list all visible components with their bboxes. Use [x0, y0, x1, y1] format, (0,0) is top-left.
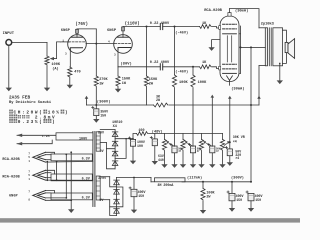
svg-text:.: .: [22, 120, 25, 125]
node row1 bias return: [174, 26, 176, 28]
wire pot4 top: [222, 134, 224, 140]
ground C7: [131, 210, 137, 214]
svg-text:RCA-020B: RCA-020B: [204, 9, 222, 13]
bias cap CB: [188, 144, 195, 153]
svg-text:270K: 270K: [99, 78, 108, 82]
svg-text:80V: 80V: [98, 131, 104, 135]
lead 0V bias: [100, 142, 106, 144]
label (300V) B+: [231, 176, 244, 181]
wire bridge1 out: [133, 134, 137, 139]
label 150K r7: [149, 78, 158, 82]
wire secondary ground: [279, 63, 281, 80]
speaker SP: [285, 39, 295, 59]
credit line: [9, 100, 52, 105]
svg-text:By Deiichiro Suzuki: By Deiichiro Suzuki: [9, 100, 52, 105]
label RCA-020B top: [204, 9, 222, 13]
pot VR5 wiper: [224, 141, 230, 145]
node bridge1 bus: [125, 138, 127, 140]
label CC tiny: [216, 148, 221, 154]
bias cap CA: [170, 144, 177, 153]
wire bridge2 to choke: [150, 178, 152, 182]
V2 plate side bus: [239, 26, 241, 73]
svg-text:(300V): (300V): [231, 176, 244, 181]
ground VR5: [219, 164, 225, 168]
plate load R7 150K 2W: [144, 76, 148, 86]
filter resistor R9 100: [137, 132, 148, 136]
svg-text:100K: 100K: [198, 81, 207, 85]
label 6N6P heater: [9, 195, 18, 199]
wire plate to OPT: [230, 9, 260, 28]
V1a grid lead: [60, 41, 69, 43]
triode V1b envelope: [114, 35, 133, 54]
wire bias return B: [192, 67, 194, 75]
label 470: [74, 71, 80, 75]
svg-text:100K: 100K: [179, 81, 188, 85]
pin 3 label: [65, 53, 67, 56]
label 150 c7: [138, 194, 144, 198]
heater bus v3: [65, 154, 67, 199]
bridge2 jog2: [110, 200, 117, 207]
label 400V c7: [138, 190, 146, 194]
pot VR1 wiper arrow: [50, 57, 56, 60]
wire volume top: [46, 42, 48, 56]
node bleeder: [202, 181, 204, 183]
wire C8 ground: [231, 201, 233, 208]
svg-text:6N6P: 6N6P: [9, 195, 18, 199]
node filter cap: [95, 104, 97, 106]
wire pot1 top: [164, 134, 166, 140]
spec line 1: [9, 110, 67, 116]
wire B+ riser: [250, 47, 252, 182]
label 6N6P V1b: [107, 29, 117, 33]
bridge2 D3: [114, 199, 120, 204]
label 100 r9: [138, 129, 144, 133]
pin 1 label: [62, 39, 64, 42]
label 0V HV: [99, 198, 103, 202]
main cap C8 400V 150: [227, 191, 235, 201]
label 150 c8: [236, 198, 242, 202]
svg-text:6N6P: 6N6P: [61, 29, 71, 33]
PT bias winding 80V: [96, 132, 100, 151]
wire fil B t2: [46, 172, 52, 174]
bridge2 right bus: [117, 187, 123, 207]
wire RA to bias rail: [174, 88, 176, 146]
V2 filament vee: [227, 76, 233, 80]
heater bus v1: [46, 162, 48, 181]
bridge1 left bus: [107, 143, 116, 149]
bridge1 column: [114, 130, 116, 169]
label (30mA) plate: [235, 9, 248, 14]
svg-text:0: 0: [31, 111, 34, 116]
node fil B taps: [46, 179, 57, 181]
svg-text:30K VR: 30K VR: [233, 135, 245, 139]
PT heater box 1: [51, 154, 92, 162]
wire heater t2: [46, 192, 52, 194]
label 150 c3: [100, 113, 106, 117]
svg-text:%: %: [35, 120, 38, 125]
wire CC ground: [211, 153, 213, 164]
wire fil A t2: [46, 154, 52, 156]
label 2W r10: [206, 195, 211, 199]
label (30mA) cathode: [231, 87, 244, 92]
label 0V bias: [100, 149, 104, 153]
V2 inner support right: [231, 36, 233, 62]
svg-text:(-46V): (-46V): [175, 30, 188, 35]
svg-text:INPUT: INPUT: [3, 32, 15, 36]
label 2W r8: [156, 99, 161, 103]
svg-text:2A3S FEB: 2A3S FEB: [9, 95, 30, 100]
heater bus v2: [56, 161, 58, 180]
V2 inner support left: [226, 36, 228, 62]
wire driver rail left: [87, 104, 154, 106]
svg-text:×4: ×4: [233, 140, 237, 144]
label 400V c8: [236, 194, 244, 198]
wire cathode to R4: [117, 67, 119, 76]
wire heater t3: [46, 197, 67, 199]
svg-text:6N6P: 6N6P: [107, 29, 117, 33]
svg-text:0V: 0V: [100, 149, 104, 153]
svg-text:(30mA): (30mA): [231, 87, 244, 92]
node main cap 2: [250, 181, 252, 183]
ground R10: [200, 210, 206, 214]
label 2W r7: [149, 83, 154, 87]
ground volume pot: [44, 88, 50, 92]
node main cap 1: [231, 181, 233, 183]
pins fil B: [28, 170, 30, 181]
heater bus v4 ground line: [70, 151, 72, 209]
label CA tiny: [178, 148, 183, 154]
filament arrows B: [33, 170, 46, 180]
V1a cathode bar: [70, 48, 82, 50]
svg-text:2p10kΩ: 2p10kΩ: [261, 21, 275, 26]
label 350V c3: [100, 110, 108, 114]
label 6N6P V1a: [61, 29, 71, 33]
svg-text:150: 150: [138, 194, 144, 198]
ground R4: [115, 89, 121, 93]
node row2 bias return: [192, 66, 194, 68]
svg-text:(300V): (300V): [97, 100, 111, 105]
AC arrow 1: [17, 134, 23, 137]
svg-text:6.3V: 6.3V: [82, 178, 91, 182]
ground CC: [209, 164, 215, 168]
V2 mid stub to ground: [212, 40, 220, 48]
wire fil B t4: [46, 179, 93, 181]
svg-text:0: 0: [18, 120, 21, 125]
wire R6 to 2A3 grid2: [212, 67, 220, 69]
svg-text:(80V): (80V): [120, 62, 131, 67]
svg-text:150: 150: [255, 198, 261, 202]
plate load R3 270K 1W: [94, 76, 98, 86]
label 1W: [99, 83, 104, 87]
bias cap CC: [208, 144, 215, 153]
bias pot VR2: [162, 139, 166, 150]
V2 cathode lead: [229, 80, 231, 85]
svg-text:6.3V: 6.3V: [82, 158, 91, 162]
wire pot2 top: [182, 134, 184, 140]
svg-text:6.3V: 6.3V: [82, 197, 91, 201]
svg-text:(-46V): (-46V): [175, 69, 188, 74]
wire R3 to rail: [95, 87, 97, 105]
wire C2 to R6: [163, 66, 200, 68]
bridge1 D1: [112, 132, 118, 137]
svg-text:RCA-020B: RCA-020B: [2, 176, 20, 180]
bias pot VR4: [199, 139, 203, 150]
V2 upper grid hatch row1: [223, 23, 237, 25]
cathode resistor R2 470: [68, 67, 72, 77]
OPT T1 primary winding: [265, 28, 267, 66]
stub rail left: [86, 99, 88, 105]
PT heater box 3: [51, 193, 92, 201]
bridge1 right bus: [115, 139, 126, 159]
ground C3: [93, 119, 99, 123]
label (117mA): [187, 176, 202, 181]
bias filter cap C5 63V: [150, 134, 157, 146]
ground C5: [152, 161, 158, 165]
filament arrows A: [33, 152, 46, 162]
label 30K VR: [233, 135, 245, 139]
B+ rail: [182, 181, 251, 183]
ground heater bus: [68, 209, 74, 213]
svg-text:0V: 0V: [99, 198, 103, 202]
label 100K b: [198, 81, 207, 85]
bridge1 D3: [112, 151, 118, 156]
wire heater t4: [46, 199, 72, 201]
svg-text:%: %: [56, 111, 59, 116]
grid stopper R5 1K: [200, 25, 212, 29]
label 150K r4: [122, 78, 131, 82]
label (110V): [125, 21, 140, 26]
label 0.22 400V row2: [150, 61, 170, 65]
bias pot VR3: [181, 139, 185, 150]
ground R2: [67, 85, 73, 89]
V2 plate cap: [228, 13, 231, 17]
wire fil B t3: [46, 177, 52, 179]
wire OPT bottom lead down: [258, 66, 260, 105]
PT heater box 2: [51, 174, 92, 182]
ground pot VR2: [161, 164, 167, 168]
wire V1b plate load top: [146, 27, 148, 77]
label (A): [52, 67, 58, 72]
PT core: [93, 132, 95, 207]
node plate side tap: [240, 46, 242, 48]
label x4 c6: [235, 156, 239, 160]
title 2A3S FEB: [9, 95, 30, 100]
wire V1b cathode node: [118, 66, 160, 68]
wire C3 to ground: [95, 116, 97, 119]
ground C9: [248, 208, 254, 212]
label 10E10: [112, 121, 123, 125]
V1b cathode lead: [117, 50, 119, 67]
V1b plate bar: [118, 36, 129, 38]
svg-text:(117mA): (117mA): [187, 176, 202, 181]
ground pot VR4: [198, 164, 204, 168]
V1a plate pin box: [76, 29, 79, 33]
arrow rail left end: [85, 96, 89, 99]
svg-text:470: 470: [74, 71, 80, 75]
wire heater t1: [46, 191, 55, 194]
label (-46V) row2: [175, 69, 188, 74]
node secondary ground tap: [279, 63, 281, 65]
wire CB ground: [192, 153, 194, 164]
svg-text:150: 150: [100, 113, 106, 117]
OPT primary tap lead: [251, 46, 265, 48]
node plate load junction: [146, 26, 148, 28]
label 63V c5: [158, 154, 164, 158]
label 100V c4: [137, 140, 145, 144]
svg-text:8H 200mA: 8H 200mA: [158, 183, 174, 187]
V2 grid2 pin tick: [219, 66, 221, 70]
AC line 2: [17, 140, 52, 144]
OPT primary top lead: [259, 27, 265, 29]
wire pot3 bottom: [201, 151, 203, 164]
V1b cathode bar: [118, 48, 131, 50]
input jack J1: [6, 40, 12, 46]
label 50V c6: [235, 149, 241, 153]
svg-text:×4: ×4: [235, 156, 239, 160]
wire R2 to ground: [69, 78, 71, 85]
bias cap C4 100V 100: [128, 137, 135, 146]
wire pot1 bottom: [164, 151, 166, 164]
pin 4 label: [108, 41, 110, 44]
label 1K row1: [202, 22, 207, 26]
wire V1a plate to node: [77, 28, 96, 30]
V2 upper plate bar: [223, 33, 237, 35]
svg-text:F·2A: F·2A: [42, 134, 50, 138]
label 270V: [98, 176, 106, 180]
wire fil A t4: [46, 160, 93, 163]
wire C5 ground: [154, 146, 156, 161]
V2 lower plate bar: [223, 72, 237, 74]
ground input jack: [6, 88, 12, 92]
OPT core lines: [269, 28, 271, 66]
wire C7 ground: [133, 197, 135, 210]
label 270K: [99, 78, 108, 82]
pin 3 label V1b: [114, 53, 116, 56]
label (-46V) row1: [175, 30, 188, 35]
spec line 2: [9, 114, 55, 120]
V1b grid dashes: [115, 43, 132, 45]
svg-text:(A): (A): [52, 67, 58, 72]
V1a cathode lead: [69, 50, 71, 67]
svg-text:150K: 150K: [149, 78, 158, 82]
svg-text:(110V): (110V): [125, 21, 140, 26]
pot VR2 wiper: [166, 141, 174, 146]
wire CA ground: [174, 153, 176, 164]
wire V1b plate to coupling: [123, 26, 160, 28]
wire lower plate to OPT tap: [241, 46, 252, 48]
bridge2 D4: [114, 209, 120, 214]
OPT primary bottom lead: [259, 65, 265, 67]
bridge2 in jog: [110, 177, 117, 187]
wire bias return A: [174, 27, 176, 76]
svg-text:440: 440: [158, 158, 164, 162]
heater arrows: [33, 191, 46, 201]
ground CA: [171, 164, 177, 168]
svg-text:100: 100: [137, 144, 143, 148]
node rail riser: [250, 104, 252, 106]
V1a plate bar: [72, 36, 83, 38]
wire rail to C3: [95, 105, 97, 109]
wire volume bottom: [46, 66, 48, 88]
V2 upper grid hatch row2: [223, 28, 237, 30]
wire input to volume: [12, 41, 47, 43]
PT primary box 100V: [56, 133, 93, 142]
node fil A taps: [46, 161, 57, 163]
arrow bias stub C: [211, 95, 215, 98]
wire plate load R3 top: [95, 29, 97, 76]
label (80V): [120, 62, 131, 67]
label 3K: [156, 95, 161, 99]
bridge2 wrap: [110, 207, 117, 216]
filament cap C6 220: [225, 146, 232, 155]
grid stopper R6 1K: [200, 65, 212, 69]
bridge1 out stub top: [115, 138, 133, 140]
bridge1 D2: [112, 141, 118, 146]
wire driver rail right: [169, 104, 259, 106]
label 100K: [51, 63, 60, 67]
hum pot VR5 30K: [220, 139, 224, 150]
bias rail: [149, 133, 223, 135]
wire fil A t3: [46, 159, 52, 161]
label 0.22 400V row1: [150, 22, 170, 26]
ground CB: [190, 164, 196, 168]
pins heater: [28, 191, 30, 202]
label 1K row2: [202, 61, 207, 65]
ground C8: [229, 208, 235, 212]
output tube V2 2A3 envelope: [220, 16, 239, 82]
svg-text:3: 3: [31, 120, 34, 125]
label 220 c6: [235, 153, 241, 157]
svg-text:150: 150: [236, 198, 242, 202]
wire fil B t1: [46, 170, 55, 174]
label 150 c9: [255, 198, 261, 202]
label (48V): [152, 130, 163, 135]
coupling capacitor C1 0.22: [160, 23, 162, 29]
svg-text:): ): [65, 111, 68, 116]
coupling capacitor C2 0.22: [160, 64, 162, 70]
wire C1 to R5: [163, 26, 200, 28]
arrow OPT bottom lead: [257, 96, 261, 99]
arrow filament stub: [228, 96, 232, 99]
pins fil A: [28, 152, 30, 163]
label fuse: [42, 134, 50, 138]
label 80V: [98, 131, 104, 135]
OPT T1 secondary winding: [273, 28, 283, 66]
wire R10 ground: [202, 201, 204, 210]
svg-text:150K: 150K: [122, 78, 131, 82]
bottom page bar: [0, 219, 300, 223]
wire jack ground lead: [8, 45, 10, 87]
label (300V) driver rail: [97, 100, 111, 105]
svg-text:100K: 100K: [51, 63, 60, 67]
wire fil A t1: [46, 152, 55, 154]
bridge2 column: [116, 178, 118, 216]
pot VR3 wiper: [185, 141, 193, 146]
AC line 1: [17, 134, 56, 136]
ground V2 stub: [208, 47, 214, 51]
bridge2 top out: [117, 177, 152, 179]
wire C4 ground: [132, 146, 134, 160]
bleeder R10 100K 2W: [201, 182, 205, 200]
V1b plate lead: [122, 27, 124, 38]
HV cap C7 400V 150: [129, 187, 137, 197]
AC arrow 2: [17, 142, 23, 145]
lead 270V: [100, 176, 110, 178]
label RCA-020B fil A: [2, 158, 20, 162]
node riser tap: [250, 46, 252, 48]
lead 80V: [100, 129, 115, 131]
bridge1 D4: [112, 161, 118, 166]
